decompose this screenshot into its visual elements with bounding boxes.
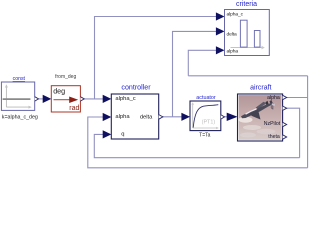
svg-text:alpha_c: alpha_c — [227, 12, 244, 18]
svg-text:theta: theta — [268, 134, 280, 140]
svg-text:delta: delta — [227, 31, 237, 37]
svg-text:alpha_c: alpha_c — [115, 96, 135, 102]
wire alpha feedback bottom — [88, 117, 308, 168]
aircraft block — [238, 94, 287, 141]
svg-text:const: const — [13, 76, 26, 82]
arrowhead into controller q — [103, 130, 112, 138]
node branch delta to criteria — [173, 31, 220, 116]
svg-text:q: q — [271, 105, 274, 111]
wire aircraft alpha output — [287, 97, 308, 99]
actuator block — [190, 101, 225, 131]
wire q feedback bottom — [94, 134, 299, 157]
svg-text:alpha: alpha — [267, 95, 280, 101]
wire actuator to aircraft — [224, 116, 231, 118]
arrowhead into actuator — [181, 113, 190, 121]
wire alpha upper horizontal — [188, 75, 307, 77]
svg-text:rad: rad — [69, 105, 79, 112]
wire alpha riser to criteria — [188, 50, 219, 76]
arrowhead into from_deg — [43, 95, 52, 103]
svg-text:(PT1): (PT1) — [202, 120, 216, 126]
aircraft output ports — [283, 95, 287, 99]
controller block — [111, 94, 163, 139]
jet silhouette — [239, 117, 253, 123]
svg-text:NzPilot: NzPilot — [264, 121, 281, 127]
from_deg block — [51, 86, 84, 113]
wire aircraft q output — [287, 108, 300, 158]
arrowhead into controller alpha_c — [103, 95, 112, 103]
arrowhead into criteria delta — [216, 27, 225, 35]
criteria block — [225, 10, 270, 56]
const block — [1, 82, 38, 110]
wire alpha vertical right — [307, 76, 309, 168]
wire controller delta to actuator — [162, 116, 184, 118]
svg-text:actuator: actuator — [196, 95, 216, 101]
svg-text:from_deg: from_deg — [55, 74, 76, 80]
arrowhead into criteria alpha — [216, 46, 225, 54]
svg-text:k=alpha_c_deg: k=alpha_c_deg — [2, 115, 38, 121]
svg-text:deg: deg — [53, 87, 65, 96]
wire from_deg to controller alpha_c — [83, 98, 104, 100]
svg-text:q: q — [121, 131, 124, 137]
svg-text:delta: delta — [140, 115, 153, 121]
svg-text:controller: controller — [121, 83, 151, 91]
svg-text:criteria: criteria — [236, 1, 257, 8]
arrowhead into controller alpha — [103, 113, 112, 121]
svg-text:alpha: alpha — [227, 49, 239, 55]
svg-text:T=Ta: T=Ta — [199, 133, 210, 139]
svg-text:aircraft: aircraft — [250, 84, 271, 91]
arrowhead into criteria alpha_c — [216, 12, 225, 20]
arrowhead into aircraft — [227, 113, 238, 121]
node branch from_deg output — [95, 17, 220, 99]
wire const to from_deg — [35, 98, 46, 100]
svg-text:alpha: alpha — [115, 114, 130, 120]
